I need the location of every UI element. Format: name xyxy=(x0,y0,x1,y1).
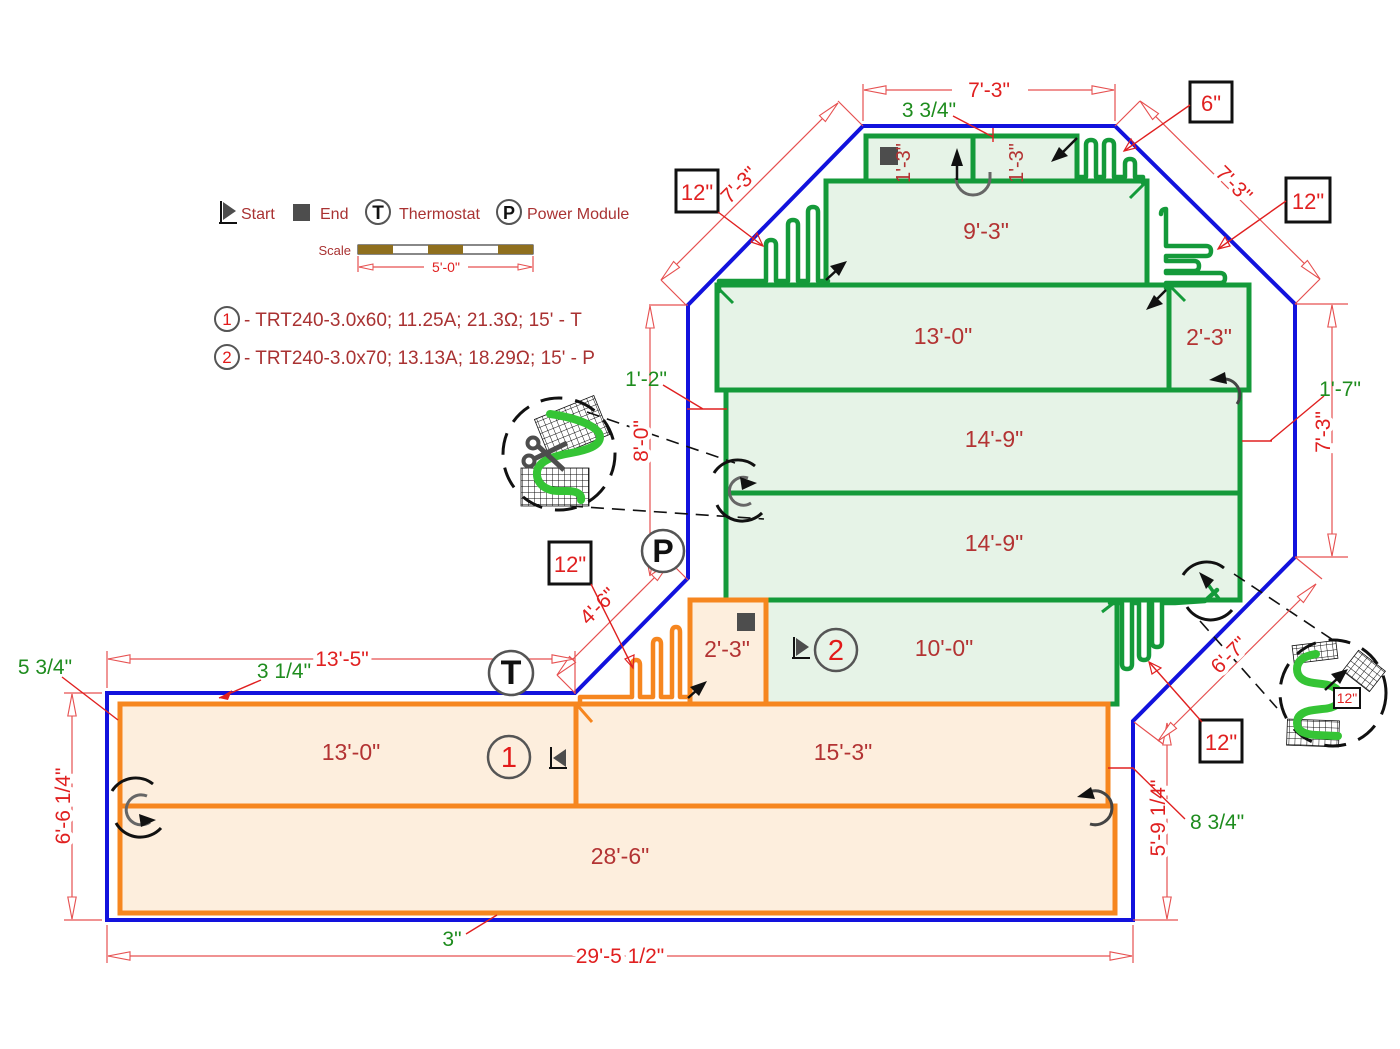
mat 14'-9" upper xyxy=(726,390,1240,493)
scale bar xyxy=(318,243,533,275)
label 10'-0" xyxy=(915,635,974,661)
svg-text:T: T xyxy=(372,203,384,224)
rotation indicator mats 14'-9" left xyxy=(714,460,762,521)
circuit number 1 xyxy=(488,736,530,778)
mat 15'-3" orange xyxy=(576,704,1108,806)
mat 1'-3" right (top) xyxy=(973,136,1077,181)
label 14'-9" lower xyxy=(965,530,1024,556)
svg-text:28'-6": 28'-6" xyxy=(591,843,650,869)
svg-text:13'-5": 13'-5" xyxy=(315,648,369,671)
svg-text:4'-6": 4'-6" xyxy=(575,583,621,629)
svg-text:2: 2 xyxy=(222,348,231,367)
arrow mat 13'-0" xyxy=(1146,290,1166,310)
corner tick mat 15'-3" orange xyxy=(578,706,592,722)
label 1'-3" right xyxy=(1006,143,1028,183)
cable squiggle orange between mats xyxy=(580,627,690,704)
svg-text:2'-3": 2'-3" xyxy=(1186,324,1232,350)
dimension 13'-5" xyxy=(107,648,575,694)
mat 9'-3" xyxy=(826,181,1147,285)
svg-text:12": 12" xyxy=(1337,690,1358,706)
svg-text:7'-3": 7'-3" xyxy=(968,79,1010,102)
legend start symbol xyxy=(219,201,275,224)
dimension 7'-3" right vertical xyxy=(1295,304,1348,557)
label 13'-0" orange xyxy=(322,739,381,765)
circuit 2 spec xyxy=(215,345,595,369)
dashed leader lines right detail xyxy=(1200,574,1333,708)
svg-text:12": 12" xyxy=(554,552,586,577)
label 2'-3" green xyxy=(1186,324,1232,350)
label 13'-0" green xyxy=(914,323,973,349)
svg-text:1'-3": 1'-3" xyxy=(1006,143,1028,183)
svg-text:7'-3": 7'-3" xyxy=(1312,411,1335,453)
svg-text:13'-0": 13'-0" xyxy=(322,739,381,765)
mat 10'-0" xyxy=(766,600,1117,704)
dimension 6'-7" diagonal xyxy=(1134,557,1322,744)
mat 2'-3" green xyxy=(1169,285,1249,390)
svg-text:1: 1 xyxy=(501,742,517,774)
mat 14'-9" lower xyxy=(726,493,1240,600)
detail circle right (mesh cut detail) xyxy=(1280,640,1386,747)
mat 28'-6" orange xyxy=(120,806,1115,913)
rotation arrow mat 2'-3" green corner xyxy=(1209,372,1240,404)
svg-text:14'-9": 14'-9" xyxy=(965,530,1024,556)
cable squiggle right of top mats xyxy=(1079,140,1143,183)
svg-text:Start: Start xyxy=(241,206,275,223)
leader 1'-2" xyxy=(625,368,727,409)
svg-text:12": 12" xyxy=(1205,730,1237,755)
dimension 29'-5 1/2" xyxy=(107,925,1133,968)
svg-text:1'-7": 1'-7" xyxy=(1319,378,1361,401)
boxed label 12" top-left xyxy=(676,170,763,246)
svg-text:5 3/4": 5 3/4" xyxy=(18,656,72,679)
svg-text:3 1/4": 3 1/4" xyxy=(257,660,311,683)
svg-text:15'-3": 15'-3" xyxy=(814,739,873,765)
svg-text:10'-0": 10'-0" xyxy=(915,635,974,661)
svg-text:P: P xyxy=(652,533,673,569)
dimension 4'-6" diagonal xyxy=(554,559,688,693)
start marker mat 1 xyxy=(549,747,567,769)
scissors xyxy=(524,438,568,471)
svg-text:14'-9": 14'-9" xyxy=(965,426,1024,452)
mat 1'-3" left (top) xyxy=(866,136,973,181)
svg-text:12": 12" xyxy=(1292,189,1324,214)
svg-text:1'-3": 1'-3" xyxy=(893,143,915,183)
label 15'-3" xyxy=(814,739,873,765)
rotation indicator orange divider left xyxy=(112,778,161,837)
cable squiggle right of 9'-3" mat xyxy=(1161,209,1225,288)
svg-text:T: T xyxy=(501,654,522,692)
end marker mat 1'-3" left xyxy=(880,147,898,165)
thermostat symbol T xyxy=(489,651,533,695)
room outline xyxy=(107,126,1295,920)
svg-text:Thermostat: Thermostat xyxy=(399,206,480,223)
boxed label 12" middle-left xyxy=(549,542,634,668)
arrow mat 1'-3" right xyxy=(1051,138,1077,162)
dimension 5'-9 1/4" xyxy=(1133,723,1178,920)
leader 3 1/4" xyxy=(219,660,311,700)
svg-text:5'-0": 5'-0" xyxy=(432,259,460,275)
leader 3 3/4" xyxy=(902,99,993,142)
mat 2'-3" orange xyxy=(690,600,766,704)
svg-text:6": 6" xyxy=(1201,91,1221,116)
svg-text:3": 3" xyxy=(442,928,461,951)
rotation indicator mat bottom right xyxy=(1183,562,1232,620)
svg-text:2: 2 xyxy=(828,635,844,667)
svg-text:5'-9 1/4": 5'-9 1/4" xyxy=(1147,780,1170,857)
svg-text:- TRT240-3.0x70; 13.13A; 18.29: - TRT240-3.0x70; 13.13A; 18.29Ω; 15' - P xyxy=(244,348,595,369)
corner tick mat 13'-0" green xyxy=(717,287,733,303)
dimension 8'-0" xyxy=(630,305,688,576)
boxed label 6" xyxy=(1124,82,1232,151)
svg-text:7'-3": 7'-3" xyxy=(1211,161,1257,207)
leader 3" xyxy=(442,915,497,951)
svg-text:12": 12" xyxy=(681,180,713,205)
circuit number 2 xyxy=(815,629,857,671)
end marker mat 2'-3" orange xyxy=(737,613,755,631)
svg-text:8'-0": 8'-0" xyxy=(630,420,653,462)
cable squiggle left of 9'-3" mat xyxy=(719,207,828,291)
label 2'-3" orange xyxy=(704,636,750,662)
boxed label 12" bottom-right xyxy=(1149,662,1242,762)
svg-text:8 3/4": 8 3/4" xyxy=(1190,811,1244,834)
svg-text:P: P xyxy=(503,203,515,223)
svg-text:3 3/4": 3 3/4" xyxy=(902,99,956,122)
corner tick mat 2'-3" green xyxy=(1171,287,1185,301)
svg-text:13'-0": 13'-0" xyxy=(914,323,973,349)
dimension 7'-3" top-left diagonal xyxy=(658,100,863,305)
corner tick mat 9'-3" right xyxy=(1130,183,1145,198)
power module symbol P xyxy=(642,530,684,572)
svg-text:9'-3": 9'-3" xyxy=(963,218,1009,244)
cable squiggle below 14'-9" lower mat xyxy=(1110,590,1217,669)
svg-text:7'-3": 7'-3" xyxy=(716,162,762,208)
mat 13'-0" xyxy=(717,285,1169,390)
svg-text:1: 1 xyxy=(222,310,231,329)
rotation arrow divider 15'-3"/28'-6" right xyxy=(1077,787,1112,825)
start marker mat 2 xyxy=(792,637,810,659)
label 1'-3" left xyxy=(893,143,915,183)
arrow mat 9'-3" xyxy=(826,261,847,280)
label 28'-6" xyxy=(591,843,650,869)
legend end symbol xyxy=(293,204,348,223)
dimension 6'-6 1/4" xyxy=(52,693,102,920)
svg-text:Power Module: Power Module xyxy=(527,206,629,223)
corner tick mat 10'-0" right xyxy=(1102,602,1115,612)
leader 8 3/4" xyxy=(1108,768,1244,834)
dimension 7'-3" top xyxy=(863,79,1115,121)
svg-text:1'-2": 1'-2" xyxy=(625,368,667,391)
svg-text:6'-6 1/4": 6'-6 1/4" xyxy=(52,768,75,845)
boxed label 12" top-right xyxy=(1218,178,1330,249)
legend power module xyxy=(497,200,629,224)
detail circle left (cut detail with scissors) xyxy=(503,396,615,510)
svg-text:2'-3": 2'-3" xyxy=(704,636,750,662)
svg-text:End: End xyxy=(320,206,348,223)
label 9'-3" xyxy=(963,218,1009,244)
mat 13'-0" orange xyxy=(120,704,576,806)
svg-text:Scale: Scale xyxy=(318,243,351,258)
label 14'-9" upper xyxy=(965,426,1024,452)
dimension 7'-3" top-right diagonal xyxy=(1115,98,1323,304)
dashed leader lines left detail xyxy=(570,412,764,519)
legend thermostat xyxy=(366,200,480,224)
rotation loop top mats xyxy=(951,148,990,195)
leader 1'-7" xyxy=(1242,378,1361,441)
svg-text:- TRT240-3.0x60; 11.25A; 21.3Ω: - TRT240-3.0x60; 11.25A; 21.3Ω; 15' - T xyxy=(244,310,582,331)
arrow mat 15'-3" xyxy=(688,681,707,698)
circuit 1 spec xyxy=(215,307,582,331)
leader 5 3/4" xyxy=(18,656,118,720)
svg-text:29'-5 1/2": 29'-5 1/2" xyxy=(576,945,665,968)
